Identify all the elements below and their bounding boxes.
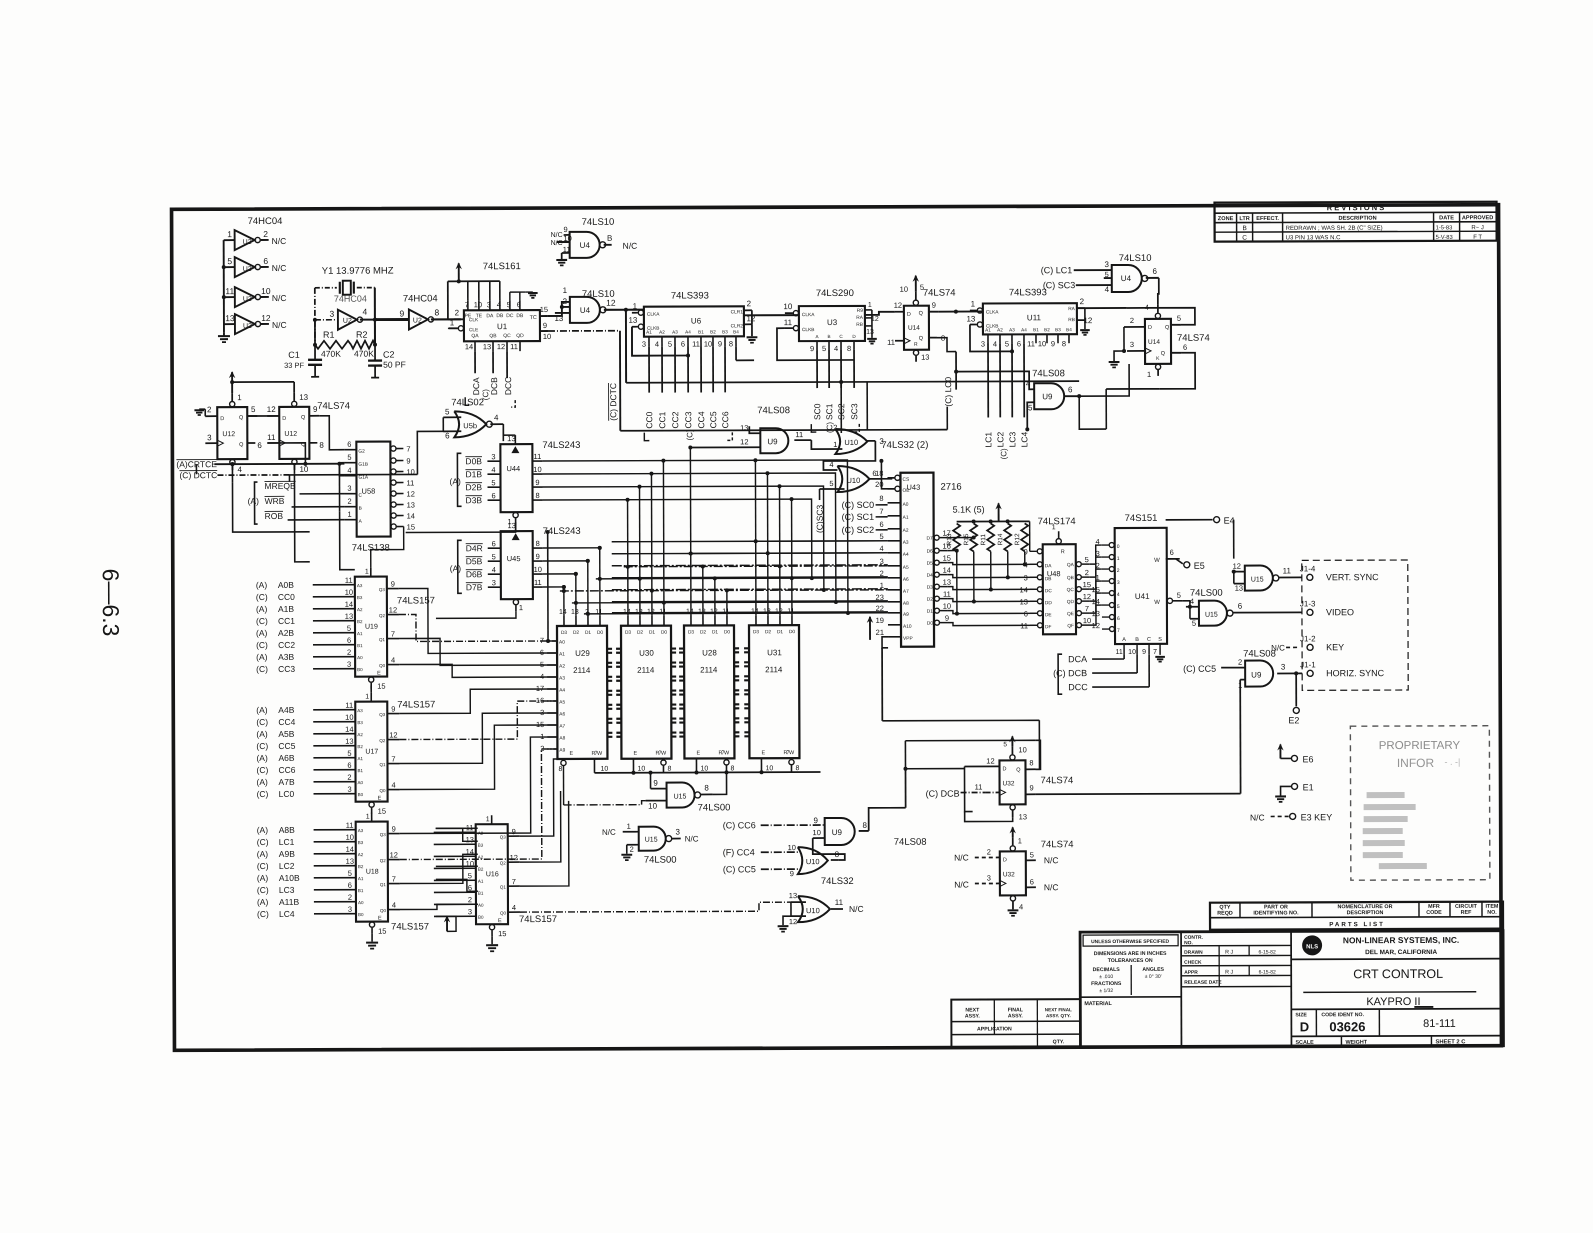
svg-text:8: 8 <box>535 491 539 500</box>
svg-text:(C) SC2: (C) SC2 <box>842 525 875 535</box>
svg-text:S: S <box>1158 637 1162 643</box>
svg-text:3: 3 <box>330 309 335 319</box>
svg-text:2: 2 <box>347 773 351 782</box>
svg-text:CLKA: CLKA <box>986 309 999 315</box>
svg-text:U10: U10 <box>846 476 860 485</box>
svg-text:A0: A0 <box>358 780 364 785</box>
svg-text:Q0: Q0 <box>500 911 507 916</box>
svg-text:CC6: CC6 <box>720 411 730 428</box>
wire U10.3 to U10.4 / OE <box>823 441 894 489</box>
wire U6 feedback <box>632 326 754 360</box>
svg-text:B2: B2 <box>357 744 363 749</box>
svg-text:(C): (C) <box>256 765 268 775</box>
parts list header <box>1210 902 1503 930</box>
svg-text:B: B <box>607 234 612 243</box>
svg-text:11: 11 <box>346 821 354 830</box>
svg-text:- . -|: - . -| <box>1445 757 1461 767</box>
svg-text:D: D <box>1300 1019 1309 1034</box>
svg-text:B2: B2 <box>1044 327 1050 332</box>
svg-text:A2B: A2B <box>278 628 294 638</box>
svg-text:10: 10 <box>1083 616 1091 625</box>
svg-text:4: 4 <box>1019 902 1023 911</box>
svg-text:9: 9 <box>790 869 794 878</box>
multiplexer U41 74S151 <box>1091 513 1183 662</box>
svg-text:D2: D2 <box>765 629 771 635</box>
application table <box>951 999 1080 1047</box>
svg-text:U18: U18 <box>366 869 379 876</box>
svg-text:U29: U29 <box>575 649 590 658</box>
svg-text:D6: D6 <box>927 549 933 555</box>
wire U11 feedback <box>970 324 1024 351</box>
gate U9 74LS08 (horiz sync) <box>1183 648 1302 689</box>
svg-text:D3B: D3B <box>466 495 483 505</box>
svg-text:DCC: DCC <box>1068 682 1088 692</box>
svg-text:A0: A0 <box>358 900 364 905</box>
svg-text:74LS74: 74LS74 <box>1177 333 1210 344</box>
svg-text:N/C: N/C <box>551 232 563 239</box>
svg-text:Q1: Q1 <box>379 637 386 642</box>
svg-text:Q: Q <box>919 311 924 317</box>
svg-text:3: 3 <box>1104 260 1109 269</box>
svg-text:LC1: LC1 <box>279 837 295 847</box>
svg-text:9: 9 <box>1024 547 1028 556</box>
svg-text:A5: A5 <box>559 699 565 705</box>
svg-text:10: 10 <box>788 843 796 852</box>
wire U58 enables <box>319 416 344 476</box>
svg-text:4: 4 <box>1105 285 1110 294</box>
svg-text:A1: A1 <box>357 756 363 761</box>
svg-text:U5b: U5b <box>463 421 477 430</box>
svg-text:R: R <box>914 342 918 348</box>
svg-text:14: 14 <box>345 600 353 609</box>
resistor pack R11-R15 5.1K <box>946 502 1030 551</box>
svg-text:D: D <box>1002 766 1006 772</box>
svg-text:U31: U31 <box>767 648 782 657</box>
svg-text:0: 0 <box>1117 544 1120 550</box>
svg-text:B3: B3 <box>1055 327 1061 332</box>
svg-text:3: 3 <box>347 660 351 669</box>
svg-text:(A): (A) <box>256 705 268 715</box>
svg-text:1: 1 <box>633 302 638 311</box>
svg-text:(A): (A) <box>256 729 268 739</box>
svg-text:LC0: LC0 <box>279 789 295 799</box>
svg-text:SC0: SC0 <box>812 403 822 420</box>
wire RAM data verticals <box>561 445 794 616</box>
svg-text:U9: U9 <box>767 437 778 446</box>
svg-text:N/C: N/C <box>954 880 969 890</box>
svg-text:CHECK: CHECK <box>1184 960 1202 966</box>
svg-text:B3: B3 <box>478 843 484 848</box>
svg-text:5: 5 <box>445 407 450 416</box>
svg-text:8: 8 <box>795 765 799 772</box>
svg-text:13: 13 <box>483 342 491 351</box>
gate U4 74LS10 (LC1*SC3) <box>1041 253 1159 294</box>
svg-text:5: 5 <box>491 478 495 487</box>
svg-text:Q: Q <box>1161 351 1166 357</box>
svg-text:3: 3 <box>492 578 496 587</box>
svg-text:(A): (A) <box>257 897 269 907</box>
wire Y1 left branch <box>313 288 337 345</box>
svg-text:J1-3: J1-3 <box>1300 599 1316 608</box>
svg-text:1: 1 <box>971 300 976 309</box>
svg-text:A5B: A5B <box>278 729 294 739</box>
wire RAM R/W bus <box>558 758 820 775</box>
svg-text:R/W: R/W <box>655 751 667 757</box>
svg-text:13: 13 <box>1019 812 1027 821</box>
svg-text:11: 11 <box>1027 339 1035 348</box>
svg-text:PARTS LIST: PARTS LIST <box>1329 921 1385 928</box>
svg-text:6: 6 <box>872 469 876 478</box>
svg-text:CC4: CC4 <box>696 411 706 428</box>
svg-text:(C): (C) <box>256 664 268 674</box>
svg-text:74LS08: 74LS08 <box>1032 368 1065 379</box>
svg-text:9: 9 <box>1142 649 1146 656</box>
svg-text:U16: U16 <box>486 871 499 878</box>
svg-text:A1: A1 <box>357 631 363 636</box>
svg-text:U45: U45 <box>507 554 521 563</box>
svg-text:4: 4 <box>492 565 496 574</box>
svg-text:QC: QC <box>1067 587 1075 593</box>
svg-text:15: 15 <box>498 929 506 938</box>
svg-text:HORIZ. SYNC: HORIZ. SYNC <box>1326 668 1385 678</box>
svg-text:D4R: D4R <box>466 543 483 553</box>
svg-text:Q: Q <box>301 415 306 421</box>
svg-text:A3B: A3B <box>278 652 294 662</box>
svg-text:A8B: A8B <box>279 825 295 835</box>
svg-text:QB: QB <box>1067 575 1074 581</box>
svg-text:U10: U10 <box>844 438 858 447</box>
svg-text:8: 8 <box>862 821 867 830</box>
svg-text:B3: B3 <box>357 720 363 725</box>
svg-text:DCC: DCC <box>503 377 513 395</box>
svg-text:10: 10 <box>648 802 657 811</box>
svg-text:DRAWN: DRAWN <box>1184 950 1203 956</box>
svg-text:74LS290: 74LS290 <box>816 288 854 299</box>
wire U6 to U3 clock <box>744 314 799 316</box>
svg-text:U9: U9 <box>1251 671 1262 680</box>
svg-text:B4: B4 <box>733 329 739 334</box>
svg-text:8: 8 <box>730 765 734 772</box>
svg-text:Q3: Q3 <box>379 712 386 717</box>
svg-text:CC1: CC1 <box>657 411 667 428</box>
svg-text:A7B: A7B <box>279 777 295 787</box>
svg-text:81-111: 81-111 <box>1423 1018 1456 1030</box>
svg-text:Q3: Q3 <box>500 835 507 840</box>
svg-text:QA: QA <box>1067 562 1075 568</box>
svg-text:2: 2 <box>563 297 568 306</box>
svg-text:B: B <box>827 334 830 339</box>
svg-text:3: 3 <box>1117 580 1120 586</box>
svg-text:8: 8 <box>536 539 540 548</box>
svg-text:CLK: CLK <box>469 317 479 323</box>
svg-text:13: 13 <box>921 353 929 362</box>
svg-text:RB: RB <box>856 322 863 328</box>
svg-text:R1: R1 <box>323 330 335 340</box>
inverter U2 oscillator <box>329 294 367 330</box>
svg-text:CODE IDENT NO.: CODE IDENT NO. <box>1321 1012 1364 1018</box>
svg-text:QE: QE <box>1067 611 1074 617</box>
svg-text:6: 6 <box>347 761 351 770</box>
svg-text:N/C: N/C <box>272 263 287 273</box>
gate U15 74LS00 (vert sync) <box>1232 561 1302 592</box>
svg-text:B0: B0 <box>478 915 484 920</box>
svg-text:A0B: A0B <box>278 580 294 590</box>
svg-text:6: 6 <box>1153 267 1158 276</box>
wire U44/U45 enables <box>406 525 516 618</box>
svg-text:R J: R J <box>1225 970 1233 976</box>
wire E4 junction <box>1166 520 1213 559</box>
svg-text:D0: D0 <box>661 630 667 636</box>
svg-text:8: 8 <box>667 766 671 773</box>
svg-text:1: 1 <box>365 569 369 576</box>
svg-text:D5B: D5B <box>466 556 483 566</box>
svg-text:6-15-82: 6-15-82 <box>1259 949 1276 955</box>
svg-text:N/C: N/C <box>602 828 616 837</box>
svg-text:SIZE: SIZE <box>1295 1012 1307 1018</box>
svg-text:4: 4 <box>655 340 659 349</box>
RAM U30 2114 <box>621 609 672 759</box>
wire U3 to U14 clock <box>865 312 895 315</box>
svg-text:B3: B3 <box>358 840 364 845</box>
svg-text:2: 2 <box>1080 297 1085 306</box>
svg-text:(C) DCB: (C) DCB <box>926 789 960 799</box>
svg-text:3: 3 <box>675 828 680 837</box>
svg-text:D3: D3 <box>753 629 759 635</box>
svg-text:12: 12 <box>740 437 748 446</box>
svg-text:(C): (C) <box>1053 668 1066 678</box>
svg-text:13: 13 <box>571 609 579 616</box>
svg-text:E6: E6 <box>1302 754 1313 764</box>
svg-text:SHEET 2 C: SHEET 2 C <box>1435 1039 1466 1045</box>
svg-text:4: 4 <box>829 460 833 469</box>
svg-text:D1: D1 <box>777 629 783 635</box>
svg-text:1: 1 <box>347 510 351 519</box>
svg-text:D0: D0 <box>789 629 795 635</box>
svg-text:DESCRIPTION: DESCRIPTION <box>1338 216 1376 222</box>
svg-text:QF: QF <box>1067 623 1074 629</box>
svg-text:3: 3 <box>642 340 646 349</box>
svg-text:(C): (C) <box>257 909 269 919</box>
wire U44 enable to RAM A0 column <box>546 530 550 643</box>
svg-text:D2: D2 <box>637 630 643 636</box>
svg-text:6: 6 <box>492 539 496 548</box>
svg-text:5: 5 <box>347 749 351 758</box>
input nets A0B-CC3 <box>256 580 355 674</box>
svg-text:E: E <box>569 751 573 757</box>
svg-text:13: 13 <box>225 313 235 323</box>
svg-text:U12: U12 <box>284 431 297 438</box>
svg-text:4: 4 <box>512 903 516 912</box>
svg-text:A3: A3 <box>903 540 909 546</box>
svg-text:(C): (C) <box>256 592 268 602</box>
svg-text:7: 7 <box>1153 649 1157 656</box>
svg-text:U2: U2 <box>243 323 252 330</box>
svg-text:1: 1 <box>563 286 568 295</box>
svg-text:D1: D1 <box>585 630 591 636</box>
svg-text:U30: U30 <box>639 649 654 658</box>
revisions table <box>1215 202 1497 242</box>
svg-text:D3: D3 <box>561 630 567 636</box>
counter U1 74LS161 <box>448 261 551 351</box>
sheet number 6-6.3 (left margin) <box>98 569 124 637</box>
wire U16.Q0 to U10.13 <box>520 902 791 912</box>
nets DCA DCB DCC to U41 <box>1053 654 1149 694</box>
svg-text:2: 2 <box>207 405 212 414</box>
svg-text:RELEASE DATE: RELEASE DATE <box>1184 980 1222 986</box>
svg-text:IDENTIFYING NO.: IDENTIFYING NO. <box>1253 910 1299 916</box>
flip-flop U12 74LS74 (half 2) <box>267 393 351 474</box>
svg-text:CC1: CC1 <box>278 616 295 626</box>
svg-text:(C) CC6: (C) CC6 <box>723 820 756 830</box>
svg-text:1: 1 <box>868 302 872 309</box>
svg-text:U4: U4 <box>580 306 591 315</box>
svg-text:6: 6 <box>347 636 351 645</box>
svg-text:(C) LC1: (C) LC1 <box>1041 265 1073 275</box>
svg-text:74LS10: 74LS10 <box>582 217 615 228</box>
svg-text:74LS00: 74LS00 <box>644 855 677 866</box>
svg-text:U6: U6 <box>691 316 702 325</box>
gate U10 74LS32 (second) <box>819 466 894 500</box>
svg-text:03626: 03626 <box>1329 1019 1365 1034</box>
wire U29.E to U15.10 <box>563 766 645 805</box>
svg-text:13: 13 <box>466 835 474 844</box>
svg-text:10: 10 <box>346 833 354 842</box>
svg-text:A1: A1 <box>478 879 484 884</box>
svg-text:74LS32 (2): 74LS32 (2) <box>881 440 928 451</box>
svg-text:D0: D0 <box>927 621 933 627</box>
svg-text:11: 11 <box>943 590 951 599</box>
svg-text:(C): (C) <box>257 861 269 871</box>
svg-text:R: R <box>1061 549 1065 555</box>
svg-text:VIDEO: VIDEO <box>1326 607 1354 617</box>
svg-text:A1: A1 <box>985 327 991 332</box>
svg-text:(A): (A) <box>256 753 268 763</box>
wire U14.Q to U11 CLKA / LC0 <box>937 309 983 406</box>
wire U9 right interconnect <box>1079 364 1129 429</box>
svg-text:11: 11 <box>835 898 844 907</box>
svg-text:11: 11 <box>345 701 353 710</box>
wire resistor pulldowns <box>955 551 1027 615</box>
svg-text:D: D <box>1148 325 1152 331</box>
svg-text:5.1K (5): 5.1K (5) <box>953 504 985 514</box>
wire U9 out to U32 <box>868 769 964 831</box>
svg-text:10: 10 <box>543 332 551 341</box>
svg-text:A0: A0 <box>478 903 484 908</box>
svg-text:LC3: LC3 <box>1007 432 1017 448</box>
svg-text:(C) CC5: (C) CC5 <box>1183 664 1216 674</box>
svg-text:9: 9 <box>653 779 658 788</box>
svg-text:7: 7 <box>879 507 883 516</box>
gate U15 74LS00 (RAM write) <box>645 770 730 813</box>
svg-text:CC2: CC2 <box>670 411 680 428</box>
svg-text:E: E <box>633 751 637 757</box>
svg-text:13: 13 <box>346 857 354 866</box>
svg-text:2: 2 <box>1238 658 1242 667</box>
svg-text:C: C <box>1147 637 1151 643</box>
svg-text:10: 10 <box>1038 339 1046 348</box>
gate U15 74LS00 (video) <box>1186 587 1302 627</box>
svg-text:1: 1 <box>227 229 232 239</box>
svg-text:9: 9 <box>564 225 568 234</box>
svg-text:B: B <box>1135 637 1139 643</box>
svg-text:B2: B2 <box>710 329 716 334</box>
svg-text:14: 14 <box>407 511 415 520</box>
svg-text:11: 11 <box>1115 649 1122 656</box>
svg-text:1: 1 <box>519 603 523 612</box>
capacitor C2 50PF <box>368 345 406 378</box>
svg-text:ZONE: ZONE <box>1218 216 1234 222</box>
svg-text:Q: Q <box>1016 767 1021 773</box>
gate U15 74LS00 (spare) <box>602 821 699 865</box>
wire U4/U14 interconnect <box>1077 278 1195 389</box>
svg-text:5: 5 <box>1003 741 1007 748</box>
svg-text:± 0° 30': ± 0° 30' <box>1145 974 1162 980</box>
svg-text:Q3: Q3 <box>380 832 387 837</box>
svg-text:D1B: D1B <box>465 469 482 479</box>
svg-text:N/C: N/C <box>685 834 699 843</box>
svg-text:CC2: CC2 <box>278 640 295 650</box>
svg-text:E: E <box>761 750 765 756</box>
svg-text:DECIMALS: DECIMALS <box>1093 967 1121 973</box>
svg-text:2114: 2114 <box>637 666 655 675</box>
svg-text:74LS00: 74LS00 <box>698 802 731 813</box>
svg-text:U4: U4 <box>1121 274 1132 283</box>
svg-text:(C): (C) <box>256 640 268 650</box>
svg-text:7: 7 <box>406 444 410 453</box>
svg-text:2: 2 <box>347 648 351 657</box>
svg-text:9: 9 <box>535 478 539 487</box>
svg-text:B3: B3 <box>357 595 363 600</box>
svg-text:6: 6 <box>348 881 352 890</box>
svg-text:CLKA: CLKA <box>802 312 815 318</box>
svg-text:5: 5 <box>829 479 833 488</box>
capacitor C1 33PF <box>284 345 322 377</box>
svg-text:9: 9 <box>391 705 395 714</box>
svg-text:15: 15 <box>378 807 386 816</box>
svg-text:1: 1 <box>1052 524 1056 531</box>
svg-text:3: 3 <box>487 300 491 309</box>
svg-text:1: 1 <box>365 694 369 701</box>
svg-text:E: E <box>696 750 700 756</box>
svg-text:SC1: SC1 <box>824 403 834 420</box>
svg-text:N/C: N/C <box>849 904 864 914</box>
svg-text:APPLICATION: APPLICATION <box>977 1026 1012 1032</box>
svg-text:11: 11 <box>563 245 571 254</box>
svg-text:(C): (C) <box>256 741 268 751</box>
svg-text:5: 5 <box>822 344 826 353</box>
svg-text:1: 1 <box>833 440 837 449</box>
buffer U44 74LS243 <box>449 434 580 526</box>
ROM U43 2716 <box>875 469 962 647</box>
svg-text:(C) SC0: (C) SC0 <box>842 500 875 510</box>
svg-text:7: 7 <box>391 755 395 764</box>
net labels LC1-LC4 <box>970 324 1029 459</box>
svg-text:R/W: R/W <box>718 750 730 756</box>
svg-text:B1: B1 <box>357 768 363 773</box>
svg-text:6—6.3: 6—6.3 <box>98 569 124 637</box>
svg-text:(C): (C) <box>257 789 269 799</box>
svg-text:A7: A7 <box>559 723 565 729</box>
svg-text:7: 7 <box>392 875 396 884</box>
svg-text:G1B: G1B <box>358 462 368 468</box>
svg-text:DCB: DCB <box>1068 668 1087 678</box>
svg-text:DB: DB <box>516 313 524 319</box>
svg-text:LC4: LC4 <box>1019 431 1029 447</box>
svg-text:R J: R J <box>1225 950 1233 956</box>
svg-text:DA: DA <box>1045 563 1052 569</box>
svg-text:4: 4 <box>880 544 884 553</box>
input nets CRTCE DCTC <box>176 442 417 512</box>
